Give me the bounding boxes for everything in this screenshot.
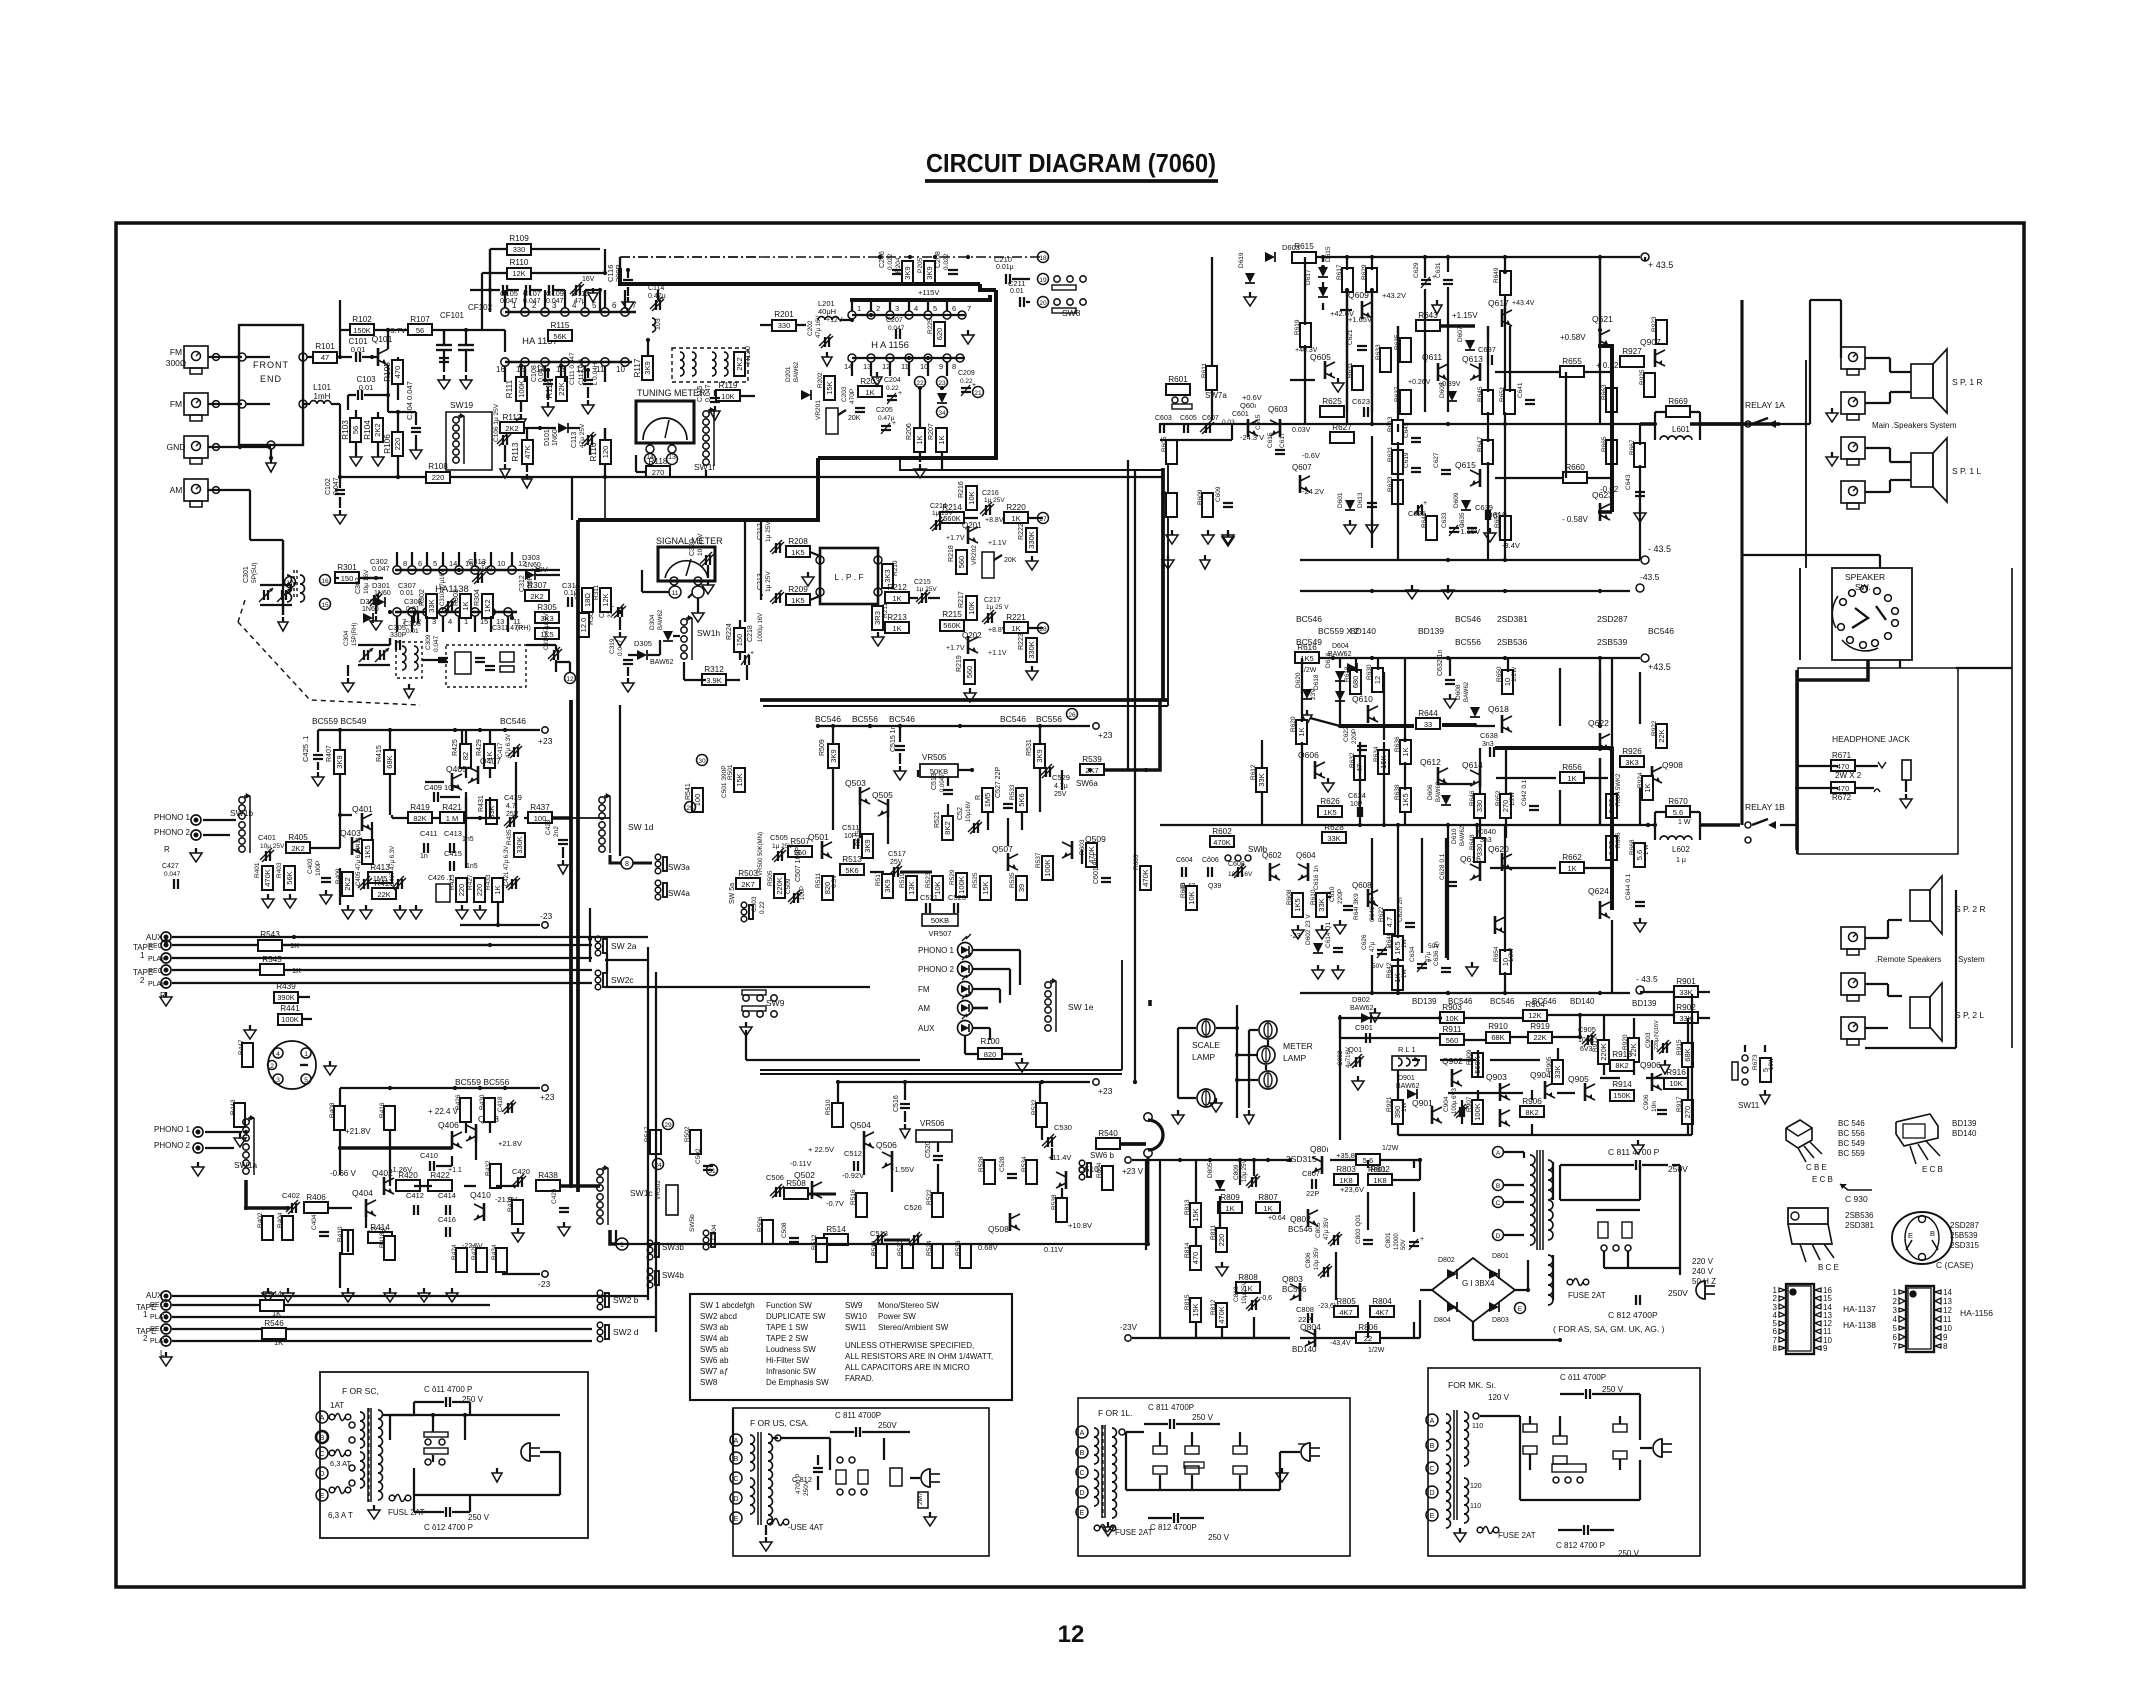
svg-text:C801: C801 [1385, 1232, 1392, 1248]
svg-text:18: 18 [1039, 255, 1047, 262]
svg-text:R920: R920 [1622, 1034, 1629, 1050]
svg-text:C810: C810 [1233, 1286, 1240, 1302]
svg-text:5.6: 5.6 [1635, 850, 1644, 860]
svg-text:R118: R118 [649, 457, 668, 466]
svg-text:C ô12 4700 P: C ô12 4700 P [424, 1523, 473, 1532]
svg-text:12: 12 [1373, 676, 1382, 684]
svg-text:R811: R811 [1210, 1225, 1217, 1240]
resistor R909 [1472, 1053, 1483, 1077]
svg-text:12K: 12K [512, 269, 525, 278]
svg-text:50KB: 50KB [931, 916, 949, 925]
svg-text:P205: P205 [917, 257, 924, 273]
svg-text:R903: R903 [1442, 1003, 1462, 1012]
resistor R515 [862, 834, 873, 858]
svg-text:1N60: 1N60 [374, 590, 391, 597]
svg-text:+1.7V: +1.7V [946, 535, 965, 542]
svg-text:250V: 250V [803, 1480, 810, 1496]
svg-text:C605: C605 [1180, 415, 1197, 422]
svg-text:R427: R427 [467, 874, 474, 890]
svg-text:SW2c: SW2c [611, 975, 634, 985]
resistor R914 [1610, 1090, 1634, 1101]
svg-text:C216: C216 [982, 490, 999, 497]
resistor R107 [388, 329, 408, 331]
resistor R920 [1628, 1038, 1639, 1062]
resistor R651 [1504, 390, 1515, 414]
svg-text:R443: R443 [230, 1099, 237, 1115]
svg-text:C413: C413 [444, 829, 462, 838]
ps bottom wires [1160, 1337, 1290, 1339]
resistor R805 [1334, 1306, 1358, 1317]
svg-text:R655: R655 [1562, 357, 1582, 366]
svg-text:D301: D301 [372, 581, 390, 590]
resistor R207 [936, 428, 947, 452]
resistor R919 [1528, 1032, 1552, 1043]
svg-text:R424: R424 [451, 1244, 458, 1260]
transformer MK [1426, 1414, 1438, 1426]
svg-text:2n2: 2n2 [553, 826, 560, 837]
svg-text:Q504: Q504 [850, 1120, 871, 1130]
svg-text:R416: R416 [379, 1102, 386, 1118]
resistor R620 [1296, 720, 1307, 744]
svg-text:R: R [164, 845, 170, 854]
svg-text:68K: 68K [1491, 1033, 1504, 1042]
resistor R423 [456, 878, 467, 902]
svg-text:C617: C617 [1279, 432, 1286, 448]
svg-text:C603: C603 [1155, 415, 1172, 422]
node 1 [616, 1238, 628, 1250]
resistor R664 [1606, 794, 1617, 818]
node 30 [697, 755, 708, 766]
svg-text:1K: 1K [493, 885, 502, 894]
resistor R101 [307, 356, 313, 358]
resistor R419 [408, 812, 432, 823]
svg-text:2M7: 2M7 [917, 1492, 924, 1505]
wire -23 rail link [589, 908, 591, 962]
svg-text:11: 11 [1823, 1327, 1832, 1336]
resistor R625 [1320, 406, 1344, 417]
svg-text:C614 Q1: C614 Q1 [1325, 922, 1332, 948]
svg-text:Q907: Q907 [1640, 337, 1661, 347]
svg-text:C632 1n: C632 1n [1437, 649, 1444, 676]
svg-text:C601: C601 [1232, 411, 1249, 418]
switch contacts SC [425, 1439, 431, 1445]
resistor R921 [1392, 1100, 1403, 1124]
svg-text:R510: R510 [825, 1099, 832, 1115]
resistor R205 [924, 261, 935, 285]
svg-text:68K: 68K [1683, 1048, 1692, 1061]
svg-text:C: C [1079, 1470, 1084, 1477]
svg-text:Q410: Q410 [470, 1190, 491, 1200]
svg-text:( FOR AS, SA, GM. UK, AG. ): ( FOR AS, SA, GM. UK, AG. ) [1553, 1324, 1665, 1334]
plug MK [1653, 1439, 1662, 1457]
svg-text:SW9: SW9 [766, 998, 785, 1008]
svg-text:D303: D303 [522, 553, 540, 562]
svg-text:1K: 1K [1011, 514, 1020, 523]
svg-text:R666: R666 [1615, 832, 1622, 848]
svg-text:R627: R627 [1332, 423, 1352, 432]
svg-text:FOR MK. Sı.: FOR MK. Sı. [1448, 1380, 1496, 1390]
svg-text:560K: 560K [943, 621, 961, 630]
svg-text:R601: R601 [1168, 375, 1188, 384]
svg-text:C419: C419 [504, 793, 522, 802]
gnd row preamp [347, 905, 349, 910]
svg-text:R421: R421 [442, 803, 462, 812]
svg-text:TAPE 2 SW: TAPE 2 SW [766, 1334, 809, 1343]
box FOR SC [320, 1372, 588, 1538]
resistor R215 [940, 620, 964, 631]
svg-text:R422: R422 [430, 1171, 450, 1180]
svg-text:R543: R543 [260, 930, 280, 939]
svg-text:220: 220 [457, 884, 466, 897]
transformer core extra [1542, 1150, 1544, 1250]
svg-text:22K: 22K [1533, 1033, 1546, 1042]
svg-text:R662: R662 [1562, 853, 1582, 862]
svg-text:C 812 4700P: C 812 4700P [1608, 1310, 1658, 1320]
svg-text:3: 3 [276, 1077, 280, 1084]
svg-text:Q908: Q908 [1662, 760, 1683, 770]
svg-text:C108: C108 [531, 365, 538, 382]
relay bus verticals [1740, 300, 1743, 424]
resistor R904 [1523, 1010, 1547, 1021]
svg-text:1K8: 1K8 [1339, 1176, 1352, 1185]
svg-text:BC556: BC556 [1036, 714, 1062, 724]
svg-text:FUSE 2AT: FUSE 2AT [1568, 1291, 1606, 1300]
svg-text:R925: R925 [1639, 369, 1646, 385]
svg-text:C421 47μ 6.3V: C421 47μ 6.3V [504, 846, 510, 886]
svg-text:C805: C805 [1315, 1222, 1322, 1238]
svg-text:VR201: VR201 [815, 400, 822, 420]
svg-text:Q617: Q617 [1488, 298, 1509, 308]
resistor R524 [932, 1244, 943, 1268]
svg-text:C629: C629 [1413, 262, 1420, 278]
svg-text:R520: R520 [897, 1240, 904, 1256]
svg-text:R668: R668 [1629, 839, 1636, 855]
svg-text:R404: R404 [277, 1212, 284, 1228]
svg-text:8: 8 [403, 559, 407, 568]
svg-text:BC546: BC546 [1288, 1225, 1313, 1234]
svg-text:SW 1d: SW 1d [628, 822, 654, 832]
resistor R655 [1560, 366, 1584, 377]
resistor R507 [788, 846, 812, 857]
resistor R119 [716, 390, 740, 401]
svg-text:C: C [319, 1451, 324, 1458]
resistor R506 [762, 1220, 773, 1244]
svg-text:C106 1μ 25V: C106 1μ 25V [493, 403, 500, 442]
svg-text:LAMP: LAMP [1283, 1053, 1306, 1063]
svg-text:250V: 250V [1668, 1288, 1688, 1298]
wire R108 rail [340, 476, 860, 478]
svg-text:220 V: 220 V [1692, 1257, 1714, 1266]
svg-text:C506: C506 [766, 1173, 784, 1182]
bold neg drive [1610, 424, 1614, 512]
amp ladder verticals upper2 [1304, 345, 1306, 424]
svg-text:R301: R301 [337, 563, 357, 572]
svg-text:B: B [1080, 1450, 1085, 1457]
resistor R615 [1292, 252, 1316, 263]
svg-text:- 0.58V: - 0.58V [1562, 515, 1588, 524]
svg-text:SW6 ab: SW6 ab [700, 1356, 729, 1365]
svg-text:R534: R534 [1021, 1156, 1028, 1172]
svg-text:R104: R104 [363, 420, 372, 440]
resistor R221 [1004, 622, 1028, 633]
svg-text:R609: R609 [1197, 489, 1204, 505]
svg-text:F OR 1L.: F OR 1L. [1098, 1408, 1132, 1418]
svg-text:R429: R429 [476, 739, 483, 756]
antenna jack FM [184, 393, 208, 415]
R608 R610 C610 [1292, 893, 1303, 917]
svg-text:330K: 330K [515, 836, 524, 854]
bottom box wires MK [1480, 1415, 1520, 1417]
svg-text:C113: C113 [571, 432, 578, 448]
resistor R541 [692, 788, 703, 812]
resistor R654 [1500, 950, 1511, 974]
svg-text:3R3: 3R3 [873, 611, 882, 625]
svg-text:C204: C204 [884, 377, 901, 384]
svg-text:3n3: 3n3 [1480, 837, 1492, 844]
svg-text:HEADPHONE JACK: HEADPHONE JACK [1832, 734, 1910, 744]
svg-text:2: 2 [1893, 1297, 1898, 1306]
svg-text:R420: R420 [398, 1171, 418, 1180]
svg-text:C401: C401 [258, 833, 276, 842]
extra dots amp rails [1370, 422, 1374, 426]
resistor R306 [578, 613, 589, 637]
svg-text:1K: 1K [1401, 747, 1410, 756]
svg-text:C609: C609 [1215, 486, 1222, 502]
svg-text:Q604: Q604 [1296, 851, 1316, 860]
wire headphone bus link [1796, 850, 1798, 854]
svg-text:680: 680 [1351, 676, 1360, 689]
svg-text:C509: C509 [785, 878, 792, 894]
svg-text:BAW62: BAW62 [650, 659, 674, 666]
transformer 1L [1076, 1426, 1088, 1438]
resistor R304 [482, 594, 493, 618]
package TO92 BC546 group [1786, 1120, 1812, 1148]
svg-text:50 H Z: 50 H Z [1692, 1277, 1716, 1286]
switch cluster US [836, 1470, 846, 1484]
resistor R547 [650, 1130, 661, 1154]
resistor R644 [1416, 718, 1440, 729]
svg-text:390K: 390K [277, 993, 295, 1002]
svg-text:R665: R665 [1601, 436, 1608, 452]
svg-text:1: 1 [1893, 1288, 1898, 1297]
svg-text:0.022: 0.022 [943, 253, 950, 270]
resistor R523 [932, 876, 943, 900]
svg-text:1K: 1K [937, 435, 946, 444]
svg-text:G I 3BX4: G I 3BX4 [1462, 1279, 1495, 1288]
svg-text:6V3: 6V3 [1580, 1046, 1593, 1053]
svg-text:C: C [733, 1476, 738, 1483]
node 25b [685, 802, 696, 813]
svg-text:D304: D304 [649, 614, 656, 630]
svg-text:R914: R914 [1612, 1080, 1632, 1089]
binding posts SP1R [1841, 347, 1865, 369]
svg-text:+: + [1420, 1236, 1424, 1243]
svg-text:SW4b: SW4b [662, 1271, 684, 1280]
bus from SW1d to power [571, 817, 610, 819]
svg-text:C208: C208 [935, 251, 942, 268]
+23 rail tone [820, 725, 1090, 727]
svg-text:C415: C415 [444, 849, 462, 858]
caps cluster MK [1523, 1424, 1537, 1432]
svg-text:R218: R218 [948, 545, 955, 562]
svg-text:R625: R625 [1322, 397, 1342, 406]
svg-text:2: 2 [876, 304, 880, 313]
svg-text:R433: R433 [485, 874, 492, 890]
svg-text:8K2: 8K2 [943, 821, 952, 834]
svg-text:R541: R541 [685, 783, 692, 800]
svg-text:1 W: 1 W [1644, 844, 1650, 855]
svg-text:220μ(N)16V: 220μ(N)16V [1654, 1020, 1660, 1050]
svg-text:470P: 470P [849, 389, 856, 404]
svg-text:R904: R904 [1525, 1000, 1545, 1009]
wire lpf feed verticals [744, 520, 746, 622]
svg-text:Q607: Q607 [1292, 463, 1312, 472]
svg-text:1K: 1K [865, 388, 874, 397]
svg-text:BD140: BD140 [1570, 997, 1595, 1006]
svg-text:BC559 BC556: BC559 BC556 [455, 1077, 510, 1087]
svg-text:PHONO 2: PHONO 2 [154, 828, 191, 837]
wire ps transformer taps [1552, 1162, 1554, 1200]
svg-text:R606: R606 [1180, 882, 1187, 898]
svg-text:C803 Q01: C803 Q01 [1355, 1214, 1362, 1244]
svg-text:2K7: 2K7 [741, 880, 754, 889]
svg-text:C643: C643 [1625, 474, 1632, 490]
wire LED bus [1019, 950, 1021, 985]
svg-text:D901: D901 [1398, 1075, 1415, 1082]
svg-text:220: 220 [1217, 1234, 1226, 1247]
svg-text:R305: R305 [537, 603, 557, 612]
svg-text:R516: R516 [850, 1189, 857, 1205]
svg-text:Q407: Q407 [480, 756, 501, 766]
svg-text:8K2: 8K2 [1525, 1108, 1538, 1117]
svg-text:R672: R672 [1832, 793, 1852, 802]
svg-text:R616: R616 [1297, 643, 1317, 652]
svg-text:R311: R311 [593, 585, 600, 600]
svg-text:BD139: BD139 [1952, 1119, 1977, 1128]
svg-text:- 43.5: - 43.5 [1648, 544, 1671, 554]
resistor R670 L602 [1666, 806, 1690, 817]
svg-text:R222: R222 [1018, 523, 1025, 540]
bold output node [1598, 346, 1612, 424]
svg-text:1K: 1K [892, 624, 901, 633]
svg-text:SW19: SW19 [450, 400, 473, 410]
wire HA1137 bottom pin stubs [504, 366, 506, 382]
svg-text:System: System [1958, 955, 1985, 964]
svg-text:R629: R629 [1361, 264, 1368, 280]
resistor R417 [372, 888, 396, 899]
package TO3 2SD287 [1892, 1212, 1952, 1264]
svg-text:220K: 220K [775, 877, 784, 895]
resistor R915 [1682, 1043, 1693, 1067]
gnd row lower amp2 [1374, 1008, 1376, 1013]
resistor R665 [1606, 440, 1617, 464]
resistor R435 [514, 833, 525, 857]
svg-text:Cô06: Cô06 [1202, 857, 1219, 864]
svg-text:A: A [734, 1438, 739, 1445]
resistor R905 [1552, 1060, 1563, 1084]
diode D202 [937, 393, 947, 403]
svg-text:R809: R809 [1220, 1193, 1240, 1202]
svg-text:+1.7V: +1.7V [946, 645, 965, 652]
svg-text:C627: C627 [1433, 452, 1440, 468]
svg-text:3: 3 [895, 304, 899, 313]
svg-text:Function SW: Function SW [766, 1301, 812, 1310]
svg-text:33K: 33K [1679, 1014, 1692, 1023]
svg-text:C631: C631 [1435, 262, 1442, 278]
svg-text:C: C [1429, 1466, 1434, 1473]
svg-text:2: 2 [1773, 1294, 1778, 1303]
svg-text:BC546: BC546 [1455, 614, 1481, 624]
svg-text:10μ 35V: 10μ 35V [1314, 1248, 1320, 1270]
resistor R115 [548, 330, 572, 341]
page frame [116, 223, 2024, 1587]
svg-text:C ô11 4700 P: C ô11 4700 P [424, 1385, 472, 1394]
resistor R401 [262, 866, 273, 890]
svg-text:R807: R807 [1258, 1193, 1278, 1202]
svg-text:R603: R603 [1133, 854, 1140, 870]
svg-text:+43.4V: +43.4V [1512, 300, 1535, 307]
transistor Q620b [1494, 916, 1497, 934]
resistor R662 [1560, 862, 1584, 873]
wire sw9 to leds [745, 1030, 747, 1060]
svg-text:+35,8: +35,8 [1336, 1151, 1355, 1160]
resistor R209 [786, 594, 810, 605]
svg-text:D802: D802 [1438, 1257, 1455, 1264]
svg-text:C645: C645 [1403, 422, 1410, 438]
svg-text:C616 1n: C616 1n [1313, 865, 1320, 890]
svg-text:10μ 25V: 10μ 25V [1242, 1282, 1248, 1304]
transformer SC [316, 1411, 328, 1423]
svg-text:2SD315: 2SD315 [1950, 1241, 1979, 1250]
svg-text:1 W: 1 W [1678, 819, 1691, 826]
svg-text:R519: R519 [899, 872, 906, 888]
svg-text:BC546: BC546 [1296, 614, 1322, 624]
resistor R522 [932, 1193, 943, 1217]
resistor R301 [335, 572, 359, 583]
resistor R533 [1016, 788, 1027, 812]
svg-text:HA-1137: HA-1137 [1843, 1304, 1876, 1314]
E node [1515, 1303, 1526, 1314]
svg-text:C302: C302 [370, 557, 388, 566]
svg-text:14: 14 [1943, 1288, 1952, 1297]
svg-text:D803: D803 [1492, 1317, 1509, 1324]
svg-text:4.7: 4.7 [1385, 917, 1394, 927]
resistor R669 L601 [1666, 406, 1690, 417]
svg-text:CF102: CF102 [468, 303, 493, 312]
svg-text:5: 5 [304, 1077, 308, 1084]
svg-text:16V: 16V [582, 276, 595, 283]
svg-text:2SB536: 2SB536 [1845, 1211, 1874, 1220]
resistor R632 [1354, 756, 1365, 780]
legend box [690, 1294, 1012, 1400]
svg-text:82K: 82K [413, 814, 426, 823]
wire aux row lines [172, 936, 592, 938]
svg-text:120: 120 [601, 446, 610, 459]
svg-text:470K: 470K [1217, 1306, 1226, 1324]
svg-text:C906: C906 [1643, 1094, 1650, 1110]
svg-text:56: 56 [351, 426, 360, 434]
svg-text:BC546: BC546 [815, 714, 841, 724]
svg-text:Stereo/Ambient SW: Stereo/Ambient SW [878, 1323, 949, 1332]
svg-text:C904: C904 [1443, 1096, 1450, 1112]
transistor Q903b [1499, 1109, 1502, 1127]
svg-text:FUSE 2AT: FUSE 2AT [1115, 1528, 1153, 1537]
svg-text:6.3V: 6.3V [831, 874, 838, 888]
resistor R519 [906, 876, 917, 900]
svg-text:-0.7V: -0.7V [826, 1199, 844, 1208]
svg-text:R529: R529 [949, 869, 956, 885]
svg-text:R917: R917 [1676, 1096, 1683, 1112]
